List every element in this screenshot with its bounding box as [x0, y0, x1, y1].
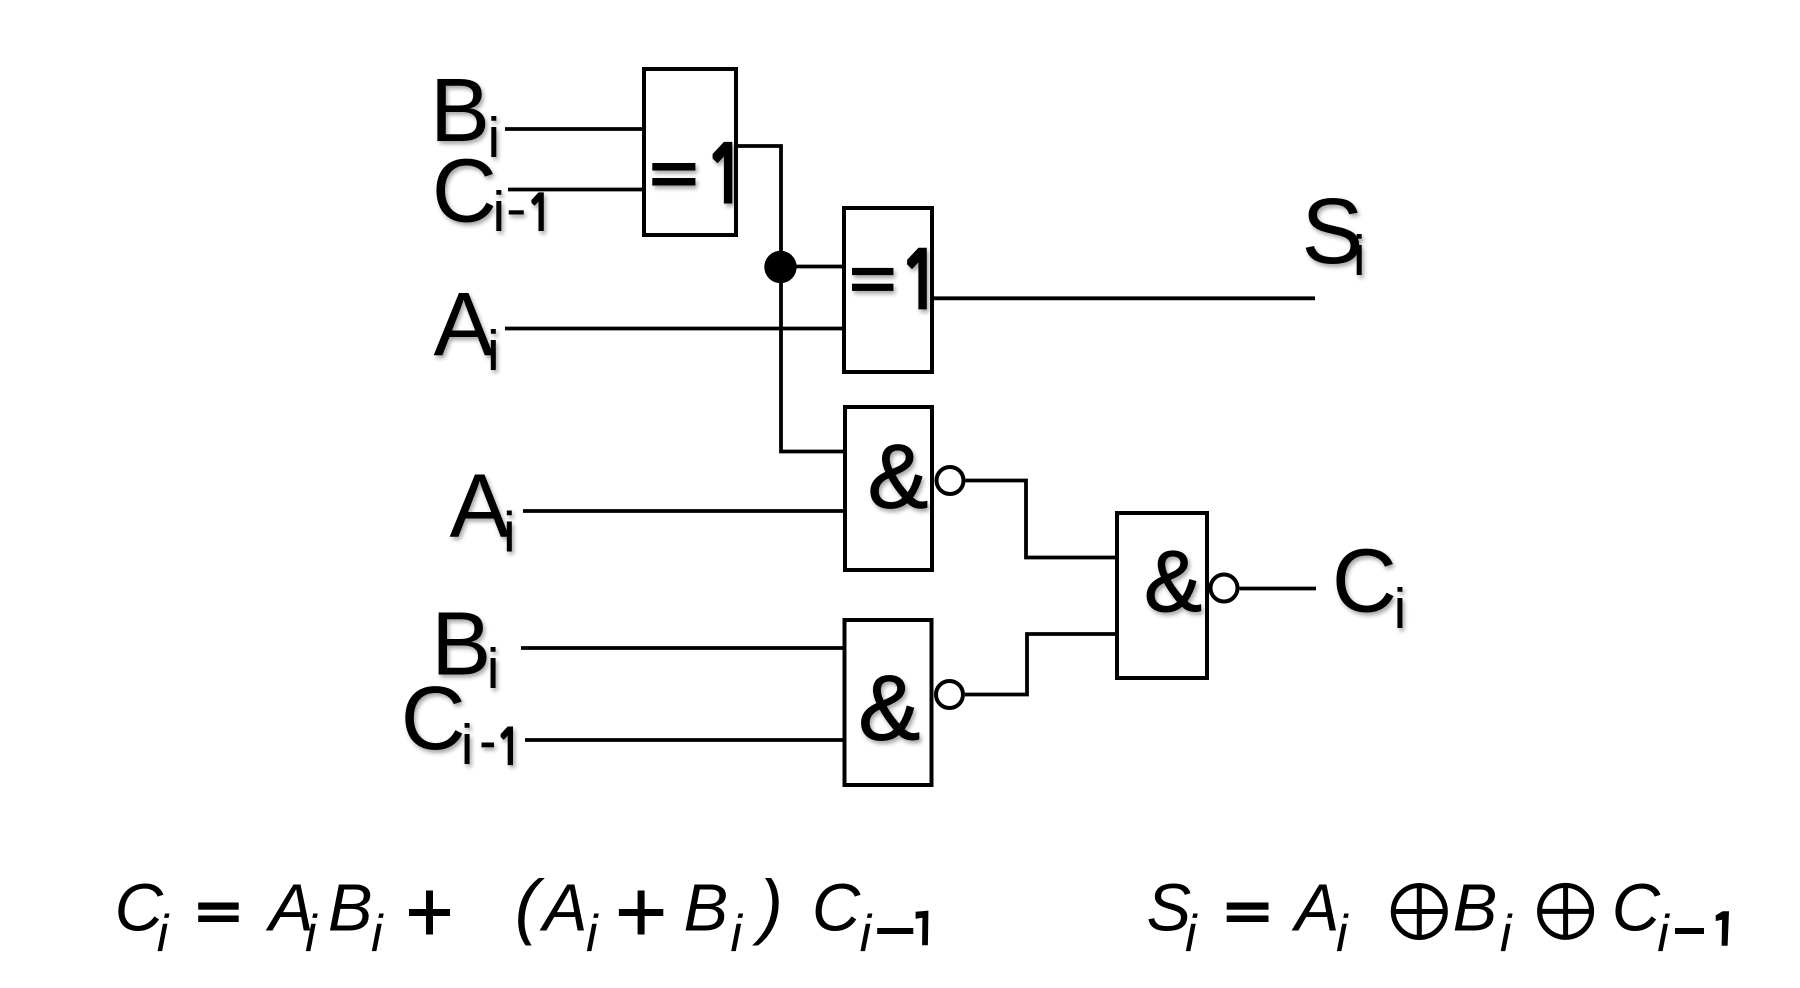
wire junction to XOR U2 input	[781, 265, 842, 269]
svg-text:Ci: Ci	[432, 142, 505, 245]
wire S_i output from XOR U2	[934, 296, 1315, 300]
svg-text:A: A	[539, 871, 588, 946]
formula 1: C_i = A_i B_i + (A_i + B_i) C_i-1	[115, 867, 929, 964]
svg-text:): )	[752, 867, 783, 947]
svg-text:(: (	[515, 867, 546, 947]
XOR gate U2 label =1	[852, 248, 927, 310]
wire C_i-1 top input to XOR U1	[508, 188, 644, 192]
svg-text:i: i	[305, 905, 318, 963]
NAND gate U3 box	[845, 407, 932, 570]
NAND gate U5 box	[1117, 513, 1207, 678]
junction node dot	[764, 251, 796, 283]
svg-text:C: C	[812, 871, 861, 946]
wire C_i-1 input to NAND U4	[525, 738, 843, 742]
svg-text:Ci: Ci	[401, 669, 474, 777]
svg-text:A: A	[1291, 871, 1340, 946]
formula 2: S_i = A_i xor B_i xor C_i-1	[1147, 871, 1730, 964]
wire B_i input to NAND U4	[521, 646, 843, 650]
NAND gate U4 output bubble	[936, 681, 963, 708]
svg-text:Ci: Ci	[1332, 531, 1406, 641]
svg-text:Ai: Ai	[434, 275, 500, 383]
svg-text:&: &	[1144, 533, 1202, 630]
svg-text:i: i	[157, 905, 170, 963]
xor symbol 1	[1393, 886, 1445, 938]
svg-text:B: B	[328, 871, 373, 946]
svg-text:B: B	[684, 871, 729, 946]
svg-text:C: C	[1612, 871, 1661, 946]
wire C_i output	[1240, 587, 1317, 591]
svg-text:i: i	[860, 905, 873, 963]
svg-text:i: i	[371, 905, 384, 963]
XOR gate U2 box	[844, 208, 932, 372]
NAND gate U5 output bubble	[1211, 575, 1238, 602]
wire U4 output to NAND U5 bottom input	[965, 634, 1115, 695]
svg-text:i: i	[1336, 905, 1349, 963]
svg-text:&: &	[868, 426, 929, 527]
NAND gate U4 box	[845, 620, 932, 785]
xor symbol 2	[1540, 885, 1592, 937]
wire B_i top input to XOR U1	[505, 127, 644, 131]
XOR gate U1 label =1	[652, 142, 732, 204]
svg-text:i: i	[730, 905, 743, 963]
wire A_i input to NAND U3	[523, 509, 843, 513]
svg-text:i: i	[1500, 905, 1513, 963]
svg-text:Si: Si	[1301, 179, 1365, 288]
svg-text:B: B	[1453, 871, 1498, 946]
wire U3 output to NAND U5 top input	[966, 481, 1116, 558]
XOR gate U1 box	[644, 69, 736, 235]
wire A_i input to XOR U2	[505, 327, 842, 331]
svg-text:i: i	[1657, 905, 1670, 963]
NAND gate U3 output bubble	[937, 467, 964, 494]
svg-text:Ai: Ai	[450, 456, 516, 564]
svg-text:&: &	[858, 656, 920, 760]
svg-text:i: i	[586, 905, 599, 963]
svg-text:i: i	[1185, 905, 1198, 963]
wire U1 output to junction and down to NAND U3	[736, 146, 843, 452]
